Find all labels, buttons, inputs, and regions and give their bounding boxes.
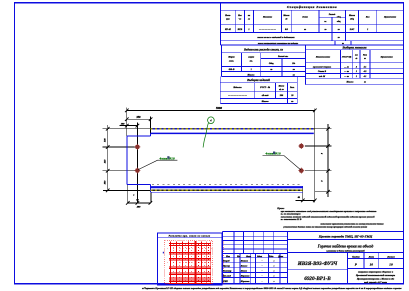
svg-text:ст.: ст. [250,60,254,62]
svg-text:кг: кг [291,101,293,103]
svg-text:Спецификация Элементов: Спецификация Элементов [287,5,337,9]
svg-text:ГОСТ-УД: ГОСТ-УД [341,57,352,59]
svg-text:кг: кг [338,37,340,39]
svg-text:пог: пог [355,55,358,57]
svg-text:кг: кг [304,29,306,31]
svg-text:Выборка металла: Выборка металла [342,45,367,49]
svg-text:общ: общ [350,17,354,20]
svg-text:Проектный изыскательский инсти: Проектный изыскательский институт [355,274,396,277]
svg-text:КР-М: КР-М [224,29,232,31]
svg-text:330: 330 [104,138,107,143]
svg-text:1: 1 [356,71,357,73]
svg-text:— кг: — кг [343,71,349,73]
svg-text:масса монтажных элементов н: масса монтажных элементов на изделие [257,42,298,45]
svg-text:Горячие найдено время на объез: Горячие найдено время на объезд [317,243,374,248]
svg-text:кг: кг [270,69,272,71]
svg-text:при монтаже элементов след уст: при монтаже элементов след установленным… [281,210,377,213]
notes block [276,207,376,221]
svg-text:Итого: Итого [247,74,256,77]
panel outline left recessed end [127,133,150,192]
svg-text:Рук.отд: Рук.отд [223,274,232,277]
specification table grid [221,3,404,45]
svg-text:Провер: Провер [222,266,231,268]
svg-text:2.9С: 2.9С [349,29,355,31]
red mesh hatch [165,240,224,283]
bottom-right shoe dimension [296,186,316,202]
svg-text:т. по миллиметров: т. по миллиметров [281,214,301,216]
svg-text:Прим:: Прим: [276,207,284,210]
svg-text:Иванов: Иванов [240,261,248,263]
svg-text:ГОСТ - №: ГОСТ - № [259,86,271,89]
svg-text:1: 1 [248,29,249,31]
svg-text:Расх: Расх [363,55,367,57]
left dimension texts (rotated) [104,138,107,143]
steel consumption table grid [221,45,305,77]
svg-text:Изделие: Изделие [232,86,241,89]
svg-text:Раскладка арм. сеток по па: Раскладка арм. сеток по панели [169,235,211,238]
svg-text:Разраб: Разраб [223,260,230,263]
svg-text:— кг: — кг [343,76,349,78]
svg-text:Марка: Марка [227,57,235,59]
faint dash row above bottom edge [152,184,303,186]
bottom-left shoe dimension [127,185,151,204]
svg-text:сВ-мод: сВ-мод [262,94,270,97]
right anchor label leader [263,156,301,171]
svg-text:проволока-спираль: проволока-спираль [313,66,331,68]
items table text [227,77,295,103]
svg-text:Проект переезда ТМЦ, НГ-03-ГМ: Проект переезда ТМЦ, НГ-03-ГМЦ [318,235,373,239]
lifting anchor dots [134,144,140,150]
title block outer [222,232,403,285]
svg-text:1: 1 [251,69,252,71]
overall top dimension line [120,108,315,203]
svg-text:кг: кг [364,58,366,60]
svg-text:таб. учрежд. 4-17 писм: таб. учрежд. 4-17 писм [364,281,387,284]
svg-text:кг: кг [293,75,295,77]
svg-text:КСВ: КСВ [237,29,243,31]
steel consumption table text [227,48,295,77]
svg-text:10: 10 [370,262,374,266]
svg-text:10: 10 [389,262,393,266]
svg-text:— — — — — — —: — — — — — — — [227,95,247,97]
svg-text:Лист: Лист [368,256,375,258]
svg-text:Масса: Масса [348,15,356,17]
svg-text:Стадия: Стадия [352,255,361,258]
panel right edge (black) [314,109,316,203]
svg-text:Итого: Итого [346,81,355,84]
svg-text:Итого: Итого [261,100,270,103]
svg-text:общ: общ [337,16,341,19]
right dimension texts (rotated) [321,152,324,154]
svg-text:Листов: Листов [386,256,394,258]
svg-text:Расход: Расход [329,13,336,16]
svg-text:кг: кг [338,29,340,31]
svg-text:Расход ст.: Расход ст. [278,55,289,58]
position marker leader (green) [203,123,208,148]
svg-text:4отв.Ø10: 4отв.Ø10 [265,152,282,156]
svg-text:Юрасова: Юрасова [240,281,250,283]
left anchor label leader [138,160,177,169]
svg-text:Выборка изделий: Выборка изделий [246,77,270,82]
svg-text:ед, кг: ед, кг [279,88,284,91]
panel top edge (blue) [151,132,314,134]
svg-text:открытое акционерное общество: открытое акционерное общество и [358,271,394,274]
svg-text:Попов: Попов [240,270,247,272]
svg-text:Промтрансниипроект г. Москва и: Промтрансниипроект г. Москва и обл [356,277,395,280]
svg-text:1: 1 [356,76,357,78]
svg-text:марка: марка [247,57,255,59]
svg-text:Общ.: Общ. [269,62,274,65]
svg-text:выполнять монтаж изделий штамп: выполнять монтаж изделий штампованной по… [281,215,375,218]
svg-text:— — — — — —: — — — — — — [258,29,276,31]
panel bottom thin edge (blue) [151,191,304,193]
svg-text:330: 330 [104,180,107,185]
svg-text:масса эл-та с отделкой и: масса эл-та с отделкой и добавками [256,36,295,39]
svg-text:Кол: Кол [236,256,240,258]
mesh layout block border [158,233,222,285]
panel bottom hidden line (dashed dark/yellow) [151,189,304,191]
svg-text:Юрасова: Юрасова [240,275,250,277]
svg-text:п/Чертежи Проекты/АГ-Ш сборные: п/Чертежи Проекты/АГ-Ш сборные панели пе… [142,287,402,290]
svg-text:6920-ВР1-В: 6920-ВР1-В [304,276,331,282]
svg-text:эл.: эл. [323,21,327,23]
svg-text:ИВЗЯ-В93-ФУЗЧ: ИВЗЯ-В93-ФУЗЧ [297,261,339,267]
svg-text:установочные данные взять на ш: установочные данные взять на штамповки н… [283,226,368,229]
svg-text:Сетка В: Сетка В [318,71,327,73]
svg-text:4.1: 4.1 [363,75,367,78]
svg-text:Изм: Изм [225,256,230,258]
svg-text:общ: общ [337,20,341,23]
left dimension chain [103,125,151,190]
svg-text:Лист: Лист [245,256,251,258]
svg-text:1: 1 [367,29,368,31]
svg-text:Дата: Дата [277,256,283,258]
svg-text:изд. М: изд. М [319,75,325,78]
svg-text:Пози-: Пози- [224,15,231,17]
svg-text:Примечание: Примечание [380,57,393,59]
svg-text:— кг: — кг [343,66,349,68]
svg-text:кг: кг [364,82,366,84]
svg-text:в: в [133,194,134,196]
svg-text:Название: Название [262,17,272,19]
svg-text:ФВ-В: ФВ-В [229,68,235,71]
svg-text:350: 350 [136,116,142,119]
svg-text:Расх.: Расх. [290,87,295,89]
svg-text:4.1: 4.1 [363,65,367,68]
svg-text:Эскиз: Эскиз [302,17,308,19]
svg-text:Наименование: Наименование [315,57,330,59]
right dimension chain [305,124,332,197]
svg-text:пластины и боксы кабины размещ: пластины и боксы кабины размещений [326,249,365,252]
items table grid [220,77,297,104]
svg-text:кг: кг [293,69,295,71]
specification table text [224,5,396,45]
svg-text:типовыми чертежами установить: типовыми чертежами установить по месту у… [321,223,384,226]
svg-text:Ед.: Ед. [291,62,296,65]
svg-text:4отв.Ø10: 4отв.Ø10 [159,156,176,160]
panel bottom thick edge (blue) [151,186,304,188]
svg-text:Подп: Подп [268,255,275,258]
svg-text:Козлов: Козлов [240,266,247,268]
metal items table text [313,45,393,83]
svg-text:Н.контр: Н.контр [222,270,232,272]
svg-text:Примечание: Примечание [383,17,396,19]
svg-text:Ведомость расхода стали, кг: Ведомость расхода стали, кг [243,48,284,52]
position marker circle [208,117,215,124]
svg-text:Масса: Масса [282,15,290,17]
svg-text:440: 440 [104,159,107,164]
metal items table grid [306,45,404,85]
svg-text:5980: 5980 [216,106,223,110]
title block small texts [222,255,283,283]
svg-text:ед: ед [355,57,357,60]
panel top hidden line (dashed yellow/blue) [151,128,315,130]
svg-text:кг: кг [324,29,326,31]
svg-text:№док: №док [256,255,263,258]
svg-text:ГИП: ГИП [222,281,228,283]
svg-text:280: 280 [136,205,141,208]
svg-text:элем.: элем. [228,60,234,62]
svg-text:Масса: Масса [278,85,284,87]
svg-text:т. автоматика 12 В: т. автоматика 12 В [281,219,302,221]
